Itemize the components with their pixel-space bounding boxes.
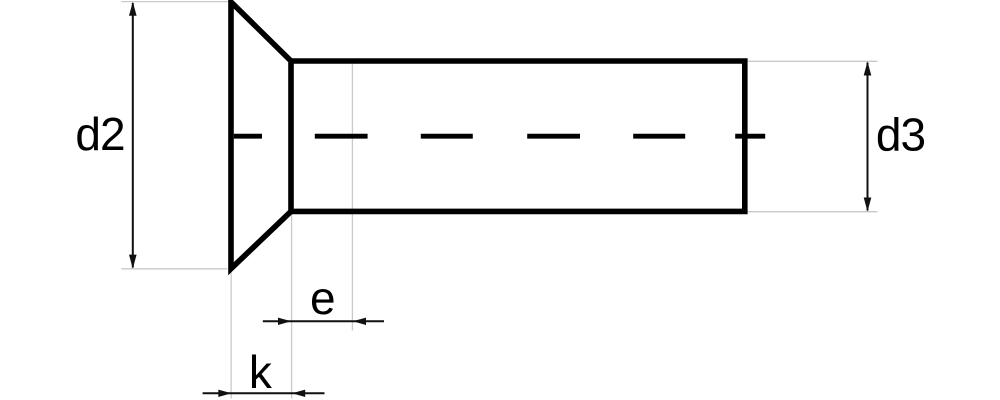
extension line bottom-left (d2 lower) [121,268,227,270]
centerline dash 3 [421,134,473,139]
extension line right upper (d3 upper) [745,60,878,62]
rivet countersunk head outline [231,2,291,269]
centerline dash 1 [234,134,262,139]
dimension line d3 [867,63,869,211]
svg-text:e: e [310,272,336,324]
dimension line e [263,320,384,322]
dimension line k [203,392,325,394]
rivet shank outline [291,61,745,211]
arrowhead d2 bottom [129,255,137,269]
svg-text:k: k [249,346,273,398]
extension line vertical at e right [351,63,353,331]
centerline dash 6 [735,134,765,139]
extension line right lower (d3 lower) [745,211,878,213]
arrowhead k left (pointing right) [218,390,231,397]
centerline dash 5 [633,134,685,139]
arrowhead d3 top [864,61,872,75]
arrowhead k right (pointing left) [292,390,305,397]
extension line top-left (d2 upper) [121,1,228,3]
svg-text:d3: d3 [876,108,925,160]
extension line vertical at head right (k right / e left) [291,215,293,399]
arrowhead e left (pointing right) [278,318,291,325]
dimension line d2 [132,3,134,268]
arrowhead d2 top [129,2,137,16]
extension line vertical at head left (k left) [230,272,232,399]
centerline dash 4 [527,134,580,139]
svg-text:d2: d2 [75,108,124,160]
arrowhead e right (pointing left) [353,318,366,325]
centerline dash 2 [315,134,368,139]
arrowhead d3 bottom [864,198,872,212]
